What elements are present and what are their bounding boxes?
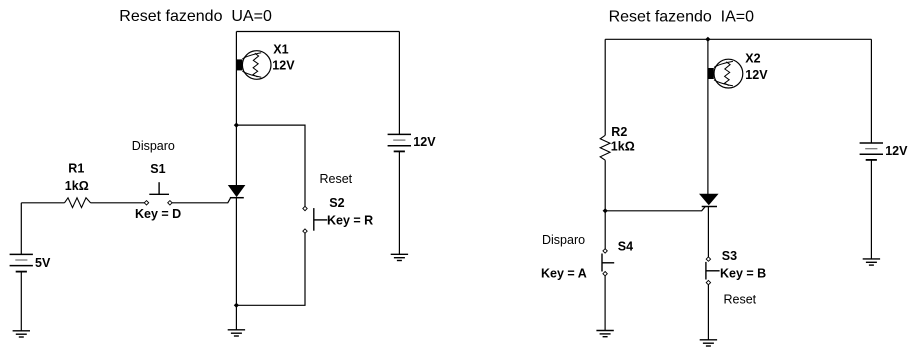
svg-text:Key = B: Key = B: [720, 267, 766, 281]
wire 5V to ground: [20, 272, 22, 331]
battery V3 12V: [860, 143, 883, 160]
ground (S3): [700, 340, 717, 346]
switch S3 (push button, vertical): [706, 257, 720, 285]
svg-text:X2: X2: [745, 51, 760, 65]
wire gate feed from left: [21, 202, 64, 204]
lamp X2: [708, 59, 743, 88]
wire battery to ground: [870, 160, 872, 259]
ground (V3): [863, 259, 880, 265]
svg-text:S2: S2: [329, 196, 344, 210]
wire S3 to ground: [707, 284, 709, 339]
wire R2 branch drop: [604, 39, 606, 135]
wire lamp/SCR vertical (anode chain): [235, 32, 237, 186]
wire battery to ground: [398, 151, 400, 254]
battery V2 5V: [10, 254, 33, 271]
svg-text:Key = R: Key = R: [327, 213, 373, 227]
wire cathode down to ground: [235, 198, 237, 330]
wire branch to S2 top: [236, 125, 305, 207]
resistor R2: [600, 135, 610, 160]
svg-text:R1: R1: [68, 162, 84, 176]
node junction anode (dot): [234, 123, 239, 128]
switch S2 (push button, vertical): [303, 206, 328, 233]
svg-text:12V: 12V: [272, 58, 295, 72]
svg-text:Reset: Reset: [320, 172, 353, 186]
node junction top rail (dot): [705, 37, 710, 42]
battery V1 12V: [388, 134, 411, 151]
svg-text:12V: 12V: [413, 135, 436, 149]
wire SCR cathode to S3: [707, 207, 709, 258]
resistor R1: [65, 198, 91, 208]
wire R2 to gate node: [604, 160, 606, 249]
wire S1 to SCR gate: [172, 198, 231, 203]
svg-text:Reset fazendo UA=0: Reset fazendo UA=0: [119, 8, 272, 25]
svg-text:Reset: Reset: [724, 293, 757, 307]
node junction gate (dot): [603, 208, 608, 213]
wire lamp X2 / SCR branch: [707, 39, 709, 194]
ground (SCR cathode): [228, 330, 245, 336]
SCR D1 (thyristor): [229, 185, 245, 197]
svg-text:12V: 12V: [745, 68, 768, 82]
wire S4 to ground: [604, 276, 606, 331]
wire top rail left circuit: [236, 31, 399, 33]
switch S1 (push button, horizontal): [144, 182, 172, 205]
svg-text:12V: 12V: [885, 144, 908, 158]
ground (right of left circuit): [391, 254, 408, 260]
SCR D2 (thyristor): [700, 194, 718, 206]
ground (5V source): [13, 331, 30, 337]
svg-text:S4: S4: [618, 240, 633, 254]
svg-text:1kΩ: 1kΩ: [65, 179, 89, 193]
lamp X1: [237, 51, 271, 80]
wire right drop to 12V battery: [398, 32, 400, 135]
svg-text:1kΩ: 1kΩ: [611, 140, 635, 154]
switch S4 (push button, vertical): [602, 249, 614, 276]
svg-text:Key = A: Key = A: [541, 267, 587, 281]
svg-text:S3: S3: [722, 249, 737, 263]
ground (S4): [596, 331, 613, 337]
svg-text:5V: 5V: [35, 256, 51, 270]
svg-text:Disparo: Disparo: [542, 233, 585, 247]
svg-text:Reset fazendo IA=0: Reset fazendo IA=0: [609, 9, 755, 26]
node junction cathode (dot): [234, 303, 239, 308]
wire gate horizontal to SCR: [605, 207, 705, 211]
wire S2 bottom to cathode node: [236, 233, 305, 305]
wire top rail right circuit: [605, 38, 871, 40]
wire right battery drop: [870, 39, 872, 143]
wire left source drop: [20, 203, 22, 255]
svg-text:R2: R2: [611, 125, 627, 139]
svg-text:X1: X1: [273, 43, 288, 57]
svg-text:S1: S1: [150, 162, 165, 176]
wire R1 to S1: [91, 202, 145, 204]
svg-text:Disparo: Disparo: [132, 139, 175, 153]
svg-text:Key = D: Key = D: [135, 207, 181, 221]
